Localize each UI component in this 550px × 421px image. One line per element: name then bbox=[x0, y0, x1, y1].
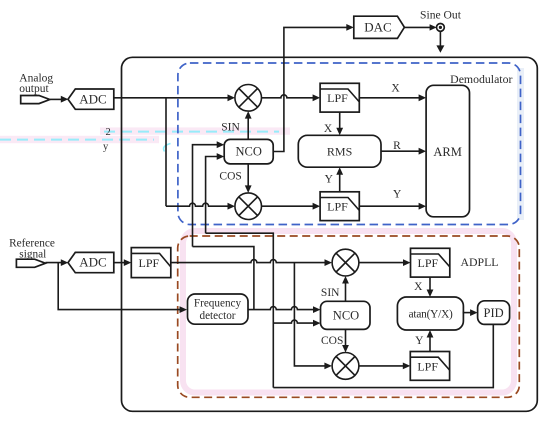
ADC A (analog) bbox=[68, 89, 114, 109]
highlight pink band lower (annotation) bbox=[0, 136, 159, 143]
wire RMS to ARM bbox=[381, 150, 420, 152]
svg-text:X: X bbox=[324, 123, 333, 135]
wire ADC2 to LPF ref bbox=[114, 262, 125, 264]
LPF ref bbox=[131, 248, 171, 278]
svg-text:LPF: LPF bbox=[327, 200, 348, 214]
FD output wire to NCO2 input A with hops bbox=[248, 307, 314, 310]
demodulator dashed box bbox=[178, 63, 521, 225]
svg-text:NCO: NCO bbox=[333, 309, 359, 323]
wire terminal to ADC1 bbox=[50, 98, 62, 100]
arrowhead into ARM X bbox=[419, 94, 427, 101]
svg-text:LPF: LPF bbox=[418, 256, 439, 270]
svg-text:Frequency: Frequency bbox=[194, 298, 242, 310]
wire M4 to LPF4 bbox=[359, 365, 404, 367]
NCO demod bbox=[224, 139, 273, 164]
wire LPF2 up to RMS bbox=[339, 173, 341, 193]
wire LPF ref to mult M3 with hops bbox=[171, 260, 325, 263]
wire rail2 with hops bbox=[166, 203, 228, 206]
svg-text:y: y bbox=[103, 142, 109, 153]
LPF3 bbox=[411, 248, 450, 277]
svg-text:LPF: LPF bbox=[327, 91, 348, 105]
wire LPF1 down to RMS bbox=[339, 112, 341, 129]
svg-text:RMS: RMS bbox=[327, 144, 352, 158]
wire M2 to LPF2 bbox=[262, 205, 314, 207]
wire LPF3 down to atan bbox=[429, 277, 431, 291]
feedback wire PID down and left bbox=[273, 324, 493, 387]
atan block bbox=[397, 297, 463, 330]
terminal pentagon reference bbox=[16, 259, 45, 267]
svg-text:Sine Out: Sine Out bbox=[420, 8, 462, 21]
svg-text:Y: Y bbox=[393, 189, 402, 201]
outer FPGA box bbox=[122, 57, 538, 411]
wire M3 to LPF3 bbox=[359, 262, 404, 264]
svg-text:ADC: ADC bbox=[79, 255, 106, 270]
wire LPF4 up to atan bbox=[429, 335, 431, 352]
LPF2 bbox=[320, 192, 359, 221]
LPF1 bbox=[320, 83, 359, 112]
svg-text:X: X bbox=[414, 281, 423, 293]
svg-text:ARM: ARM bbox=[433, 145, 461, 159]
pink halo of ADPLL box bbox=[183, 231, 514, 393]
ADC R (reference) bbox=[68, 252, 114, 272]
branch down to FD at x58.2 bbox=[58, 263, 180, 310]
svg-text:X: X bbox=[391, 82, 400, 94]
svg-text:LPF: LPF bbox=[417, 359, 438, 373]
PID block bbox=[478, 301, 510, 325]
reference branch down x294.4 bbox=[294, 263, 325, 366]
highlight pink band upper (annotation) bbox=[100, 127, 290, 134]
svg-text:output: output bbox=[19, 83, 49, 95]
NCO1 input A wire bbox=[193, 145, 218, 247]
NCO2 input B wire with hop bbox=[273, 320, 314, 323]
wire ADC1 to mult M1 bbox=[114, 97, 228, 99]
svg-text:Y: Y bbox=[325, 174, 334, 186]
arrowhead into DAC bbox=[346, 24, 354, 31]
wire NCO2 cos down to M4 bbox=[345, 329, 347, 347]
svg-text:2: 2 bbox=[106, 127, 111, 138]
svg-text:ADC: ADC bbox=[79, 91, 106, 106]
NCO1 input B wire bbox=[206, 157, 218, 234]
cyan dashed annotation line lower bbox=[0, 139, 154, 141]
svg-text:SIN: SIN bbox=[221, 122, 240, 134]
wire NCO1 cos down to M2 bbox=[247, 164, 249, 187]
svg-text:LPF: LPF bbox=[139, 256, 160, 270]
sine out terminal circle bbox=[437, 24, 445, 32]
arrowhead into ADC1 bbox=[61, 96, 69, 103]
svg-text:Y: Y bbox=[415, 335, 424, 347]
svg-text:NCO: NCO bbox=[235, 145, 261, 159]
DAC pentagon bbox=[354, 16, 405, 38]
svg-text:DAC: DAC bbox=[364, 20, 391, 35]
arrowhead into LPF1 bbox=[313, 94, 321, 101]
wire atan to PID bbox=[463, 312, 472, 314]
wire M1 to LPF1 with hop at x283.9 bbox=[262, 95, 314, 98]
LPF4 bbox=[410, 352, 449, 381]
svg-text:COS: COS bbox=[219, 171, 241, 183]
cyan dashed annotation line upper bbox=[104, 131, 279, 133]
svg-text:atan(Y/X): atan(Y/X) bbox=[409, 309, 453, 321]
wire terminal to ADC2 bbox=[46, 262, 63, 264]
multiplier M1 bbox=[235, 85, 262, 112]
arrowhead into ADC2 bbox=[61, 259, 69, 266]
arrowhead into mult M1 bbox=[228, 94, 236, 101]
cyan arc mark bbox=[164, 144, 171, 152]
wire NCO1 sin up to M1 bbox=[247, 117, 249, 139]
svg-text:PID: PID bbox=[484, 306, 504, 320]
svg-text:COS: COS bbox=[321, 335, 343, 347]
wire branch down at x166 bbox=[165, 98, 167, 206]
RMS block bbox=[298, 135, 381, 167]
svg-text:detector: detector bbox=[199, 310, 235, 322]
NCO demod to DAC wire bbox=[273, 27, 347, 151]
wire LPF2 to ARM bbox=[359, 205, 419, 207]
Frequency detector bbox=[188, 294, 249, 324]
light blue halo right edge of demod box bbox=[517, 68, 524, 220]
terminal pentagon analog output bbox=[21, 96, 50, 104]
svg-text:ADPLL: ADPLL bbox=[460, 255, 498, 269]
NCO adpll bbox=[321, 301, 371, 329]
ADPLL dashed box bbox=[178, 236, 520, 397]
multiplier M4 bbox=[332, 353, 359, 380]
ARM block bbox=[426, 85, 469, 217]
svg-text:R: R bbox=[393, 140, 401, 152]
wire DAC to terminal bbox=[404, 26, 430, 28]
sine out down arrow bbox=[439, 31, 441, 46]
wire LPF1 to ARM bbox=[359, 97, 419, 99]
multiplier M2 bbox=[235, 193, 262, 220]
feedback vertical x273.3 bbox=[206, 233, 274, 387]
svg-text:SIN: SIN bbox=[321, 287, 340, 299]
multiplier M3 bbox=[332, 249, 359, 276]
FD tap up to demod elbow bbox=[193, 247, 254, 310]
svg-text:Demodulator: Demodulator bbox=[450, 72, 512, 86]
wire NCO2 sin up to M3 bbox=[345, 282, 347, 301]
